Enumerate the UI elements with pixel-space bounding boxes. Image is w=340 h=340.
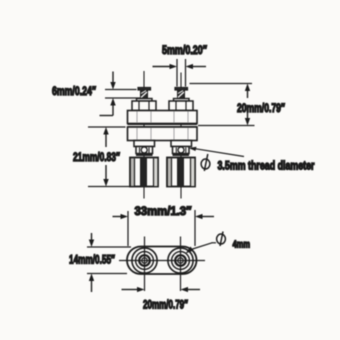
- centerline left post: [143, 71, 145, 199]
- svg-text:20mm/0.79″: 20mm/0.79″: [237, 101, 285, 115]
- stud flange left: [138, 88, 151, 91]
- bottom view stadium body: [127, 247, 197, 275]
- bottom view vertical centerline left: [144, 237, 146, 292]
- body lower plate: [128, 127, 198, 141]
- phi symbol 4mm: [217, 232, 226, 247]
- hex nut left: [132, 101, 156, 111]
- dimension 14mm/0.55: [87, 233, 131, 292]
- bottom view rings right: [168, 248, 193, 273]
- washer band left: [136, 154, 153, 157]
- svg-text:20mm/0.79″: 20mm/0.79″: [143, 298, 188, 312]
- hex nut right: [169, 101, 193, 111]
- threaded stud left: [141, 90, 148, 100]
- dimension 20mm/0.79 right: [190, 84, 255, 126]
- washer band right: [173, 154, 190, 157]
- insulator cylinder left: [130, 158, 158, 187]
- body mid seam: [128, 124, 198, 127]
- bottom view horizontal centerline: [119, 260, 205, 262]
- dimension 5mm/0.20 top: [153, 59, 207, 87]
- leader phi 4mm: [186, 243, 217, 254]
- body upper plate: [128, 111, 198, 124]
- dimension 20mm/0.79 bottom: [122, 287, 201, 292]
- stud flange right: [175, 88, 188, 91]
- svg-text:3.5mm thread diameter: 3.5mm thread diameter: [218, 159, 315, 173]
- thread nut left: [136, 147, 153, 154]
- bottom view vertical centerline right: [180, 237, 182, 292]
- threaded stud right: [178, 90, 185, 100]
- svg-text:33mm/1.3″: 33mm/1.3″: [135, 204, 192, 218]
- dimension 6mm/0.24 left: [100, 72, 141, 116]
- leader 3.5mm thread: [189, 147, 245, 157]
- washer left: [137, 99, 153, 102]
- dimension 21mm/0.83 left: [88, 127, 141, 187]
- washer right: [174, 99, 190, 102]
- centerline right post: [180, 73, 182, 199]
- step left: [134, 141, 155, 147]
- svg-text:5mm/0.20″: 5mm/0.20″: [162, 43, 207, 57]
- step right: [171, 141, 192, 147]
- svg-text:14mm/0.55″: 14mm/0.55″: [69, 253, 115, 267]
- svg-text:21mm/0.83″: 21mm/0.83″: [73, 150, 120, 164]
- thread nut right: [173, 147, 190, 154]
- insulator cylinder right: [167, 158, 195, 187]
- phi symbol 3.5mm: [201, 154, 210, 171]
- svg-text:4mm: 4mm: [233, 239, 251, 251]
- svg-text:6mm/0.24″: 6mm/0.24″: [52, 84, 96, 98]
- bottom view rings left: [132, 248, 157, 273]
- dimension 33mm/1.3: [113, 210, 215, 246]
